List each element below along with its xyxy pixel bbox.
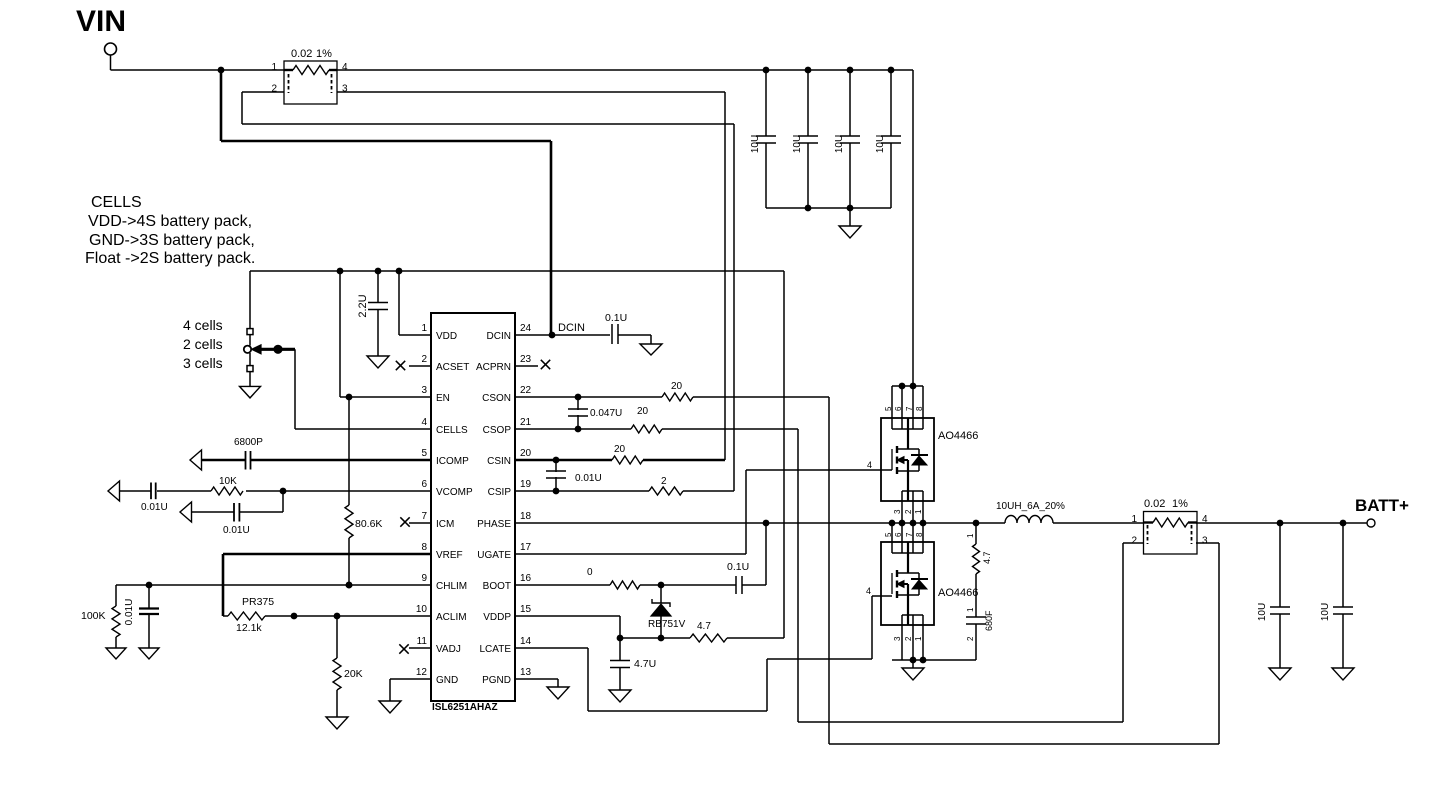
svg-text:8: 8: [915, 532, 924, 537]
svg-text:0.01U: 0.01U: [223, 525, 250, 536]
svg-text:GND->3S battery pack,: GND->3S battery pack,: [89, 232, 255, 249]
svg-text:4: 4: [866, 586, 871, 596]
svg-text:1: 1: [966, 607, 975, 612]
svg-text:ACSET: ACSET: [436, 362, 469, 373]
svg-text:9: 9: [421, 573, 427, 584]
svg-text:3: 3: [1202, 536, 1208, 547]
svg-text:0.02: 0.02: [291, 48, 312, 60]
svg-text:7: 7: [905, 406, 914, 411]
svg-text:3: 3: [342, 84, 348, 95]
svg-text:5: 5: [884, 532, 893, 537]
svg-text:LCATE: LCATE: [480, 644, 512, 655]
svg-text:1: 1: [914, 636, 923, 641]
svg-text:VDD->4S battery pack,: VDD->4S battery pack,: [88, 213, 252, 230]
svg-text:7: 7: [905, 532, 914, 537]
svg-text:PR375: PR375: [242, 596, 274, 608]
svg-text:0.02: 0.02: [1144, 498, 1165, 510]
svg-text:0.1U: 0.1U: [605, 312, 627, 324]
svg-text:2: 2: [904, 509, 913, 514]
svg-text:20: 20: [671, 381, 683, 392]
svg-text:4: 4: [342, 62, 348, 73]
svg-text:100K: 100K: [81, 610, 106, 622]
svg-text:10U: 10U: [875, 135, 886, 153]
svg-text:1: 1: [272, 62, 278, 73]
svg-text:10U: 10U: [750, 135, 761, 153]
svg-text:PGND: PGND: [482, 675, 511, 686]
svg-text:ACLIM: ACLIM: [436, 612, 467, 623]
svg-text:6: 6: [421, 479, 427, 490]
svg-text:0.047U: 0.047U: [590, 408, 622, 419]
svg-text:2: 2: [904, 636, 913, 641]
svg-text:10U: 10U: [1257, 603, 1268, 621]
svg-text:10U: 10U: [1320, 603, 1331, 621]
svg-text:VCOMP: VCOMP: [436, 487, 473, 498]
svg-text:2: 2: [661, 476, 667, 487]
svg-text:0.01U: 0.01U: [124, 599, 135, 626]
svg-text:14: 14: [520, 636, 532, 647]
svg-text:4.7: 4.7: [982, 551, 992, 564]
svg-text:DCIN: DCIN: [558, 322, 585, 334]
svg-text:7: 7: [421, 511, 427, 522]
svg-text:5: 5: [884, 406, 893, 411]
svg-text:3: 3: [893, 509, 902, 514]
svg-text:CSON: CSON: [482, 393, 511, 404]
svg-text:13: 13: [520, 667, 532, 678]
svg-text:3: 3: [421, 385, 427, 396]
svg-text:21: 21: [520, 417, 532, 428]
svg-text:22: 22: [520, 385, 532, 396]
svg-text:1: 1: [1132, 514, 1138, 525]
svg-text:0.1U: 0.1U: [727, 561, 749, 573]
svg-text:DCIN: DCIN: [487, 331, 511, 342]
svg-text:1%: 1%: [1172, 498, 1188, 510]
svg-text:VDDP: VDDP: [483, 612, 511, 623]
svg-text:3: 3: [893, 636, 902, 641]
svg-text:20: 20: [614, 444, 626, 455]
svg-text:2: 2: [966, 636, 975, 641]
svg-text:16: 16: [520, 573, 532, 584]
svg-text:12.1k: 12.1k: [236, 622, 262, 634]
svg-text:10U: 10U: [792, 135, 803, 153]
svg-text:BATT+: BATT+: [1355, 496, 1409, 515]
svg-text:80.6K: 80.6K: [355, 518, 382, 530]
svg-text:CHLIM: CHLIM: [436, 581, 467, 592]
svg-text:AO4466: AO4466: [938, 587, 978, 599]
svg-text:BOOT: BOOT: [483, 581, 511, 592]
svg-text:CSIP: CSIP: [488, 487, 512, 498]
svg-text:6: 6: [894, 532, 903, 537]
svg-text:AO4466: AO4466: [938, 430, 978, 442]
svg-text:680F: 680F: [984, 610, 994, 631]
svg-text:4: 4: [867, 460, 872, 470]
svg-text:2.2U: 2.2U: [357, 294, 369, 317]
svg-text:19: 19: [520, 479, 532, 490]
svg-text:UGATE: UGATE: [477, 550, 511, 561]
svg-text:2: 2: [272, 84, 278, 95]
svg-text:10U: 10U: [834, 135, 845, 153]
svg-text:20: 20: [520, 448, 532, 459]
svg-text:8: 8: [915, 406, 924, 411]
svg-text:EN: EN: [436, 393, 450, 404]
svg-text:8: 8: [421, 542, 427, 553]
svg-text:VADJ: VADJ: [436, 644, 461, 655]
svg-text:0.01U: 0.01U: [141, 502, 168, 513]
svg-text:0: 0: [587, 567, 593, 578]
svg-text:20K: 20K: [344, 668, 363, 680]
svg-text:17: 17: [520, 542, 532, 553]
svg-text:6800P: 6800P: [234, 437, 263, 448]
svg-text:VDD: VDD: [436, 331, 457, 342]
svg-text:ICOMP: ICOMP: [436, 456, 469, 467]
svg-text:12: 12: [416, 667, 428, 678]
svg-text:VREF: VREF: [436, 550, 463, 561]
svg-text:CSOP: CSOP: [483, 425, 512, 436]
svg-text:1: 1: [966, 533, 975, 538]
svg-text:PHASE: PHASE: [477, 519, 511, 530]
svg-text:VIN: VIN: [76, 5, 126, 38]
svg-text:18: 18: [520, 511, 532, 522]
svg-text:11: 11: [417, 636, 428, 647]
svg-text:4.7U: 4.7U: [634, 658, 656, 670]
svg-text:10UH_6A_20%: 10UH_6A_20%: [996, 501, 1065, 512]
svg-text:ISL6251AHAZ: ISL6251AHAZ: [432, 702, 498, 713]
svg-text:2 cells: 2 cells: [183, 336, 223, 352]
svg-text:4.7: 4.7: [697, 621, 711, 632]
svg-text:24: 24: [520, 323, 532, 334]
svg-text:RB751V: RB751V: [648, 619, 686, 630]
svg-text:0.01U: 0.01U: [575, 473, 602, 484]
svg-text:23: 23: [520, 354, 532, 365]
svg-text:5: 5: [421, 448, 427, 459]
svg-text:CELLS: CELLS: [91, 194, 142, 211]
svg-text:2: 2: [1132, 536, 1138, 547]
svg-text:1: 1: [914, 509, 923, 514]
svg-text:ICM: ICM: [436, 519, 454, 530]
svg-text:1: 1: [421, 323, 427, 334]
svg-text:GND: GND: [436, 675, 458, 686]
svg-text:3 cells: 3 cells: [183, 355, 223, 371]
svg-text:10K: 10K: [219, 476, 237, 487]
svg-text:4 cells: 4 cells: [183, 317, 223, 333]
svg-text:1%: 1%: [316, 48, 332, 60]
svg-text:15: 15: [520, 604, 532, 615]
svg-text:CSIN: CSIN: [487, 456, 511, 467]
svg-text:6: 6: [894, 406, 903, 411]
svg-text:Float ->2S battery pack.: Float ->2S battery pack.: [85, 250, 255, 267]
svg-text:4: 4: [421, 417, 427, 428]
svg-text:ACPRN: ACPRN: [476, 362, 511, 373]
svg-text:CELLS: CELLS: [436, 425, 468, 436]
svg-text:20: 20: [637, 406, 649, 417]
svg-text:10: 10: [416, 604, 428, 615]
svg-text:2: 2: [421, 354, 427, 365]
